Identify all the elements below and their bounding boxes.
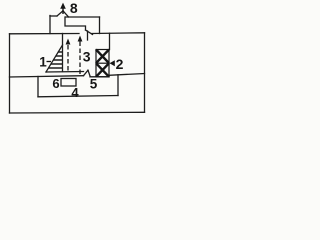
cabinet outer wall left <box>9 34 11 113</box>
svg-text:6: 6 <box>52 76 59 91</box>
louver hypotenuse <box>46 45 63 72</box>
chimney top edge <box>66 16 100 18</box>
outlet flap (open damper) <box>57 11 63 16</box>
svg-text:3: 3 <box>83 48 91 64</box>
floor right segment <box>109 74 145 76</box>
louver support column <box>62 34 64 72</box>
duct pipe to heater stack <box>109 33 111 49</box>
floor flap 5 <box>84 70 89 76</box>
ceiling opening flap pivot <box>87 31 89 40</box>
chimney inner baffle <box>65 17 86 30</box>
svg-text:8: 8 <box>70 0 78 16</box>
cabinet outer wall bottom <box>10 111 145 114</box>
bottom duct floor <box>38 96 118 97</box>
pointer dash for label 1 <box>47 61 52 63</box>
svg-text:4: 4 <box>71 85 79 100</box>
flow arrow 3 left (dashed shaft) <box>67 44 69 71</box>
louver hatch bars (element 1) <box>48 52 62 68</box>
damper box 6 <box>61 79 76 87</box>
chimney top edge left stub <box>50 15 57 17</box>
flow arrow 3 left (head) <box>66 39 71 45</box>
flow arrow 8 (shaft) <box>62 6 64 14</box>
flow arrow 3 right (head) <box>78 36 83 42</box>
outlet flap tail <box>63 11 69 17</box>
cabinet outer wall right <box>144 33 146 113</box>
bottom duct right wall <box>117 75 119 96</box>
cabinet ceiling right segment <box>92 32 145 35</box>
heater stack (element 2) <box>96 50 109 77</box>
flow arrow 3 right (dashed shaft) <box>79 41 81 74</box>
svg-text:5: 5 <box>90 76 98 91</box>
ceiling opening flap <box>86 30 93 35</box>
svg-text:2: 2 <box>116 56 124 72</box>
floor left segment <box>10 76 84 77</box>
pointer arrow for label 2 <box>110 60 115 66</box>
chimney left wall <box>49 16 51 34</box>
floor under stack <box>90 76 109 78</box>
cabinet ceiling left segment <box>10 33 80 35</box>
floor flap 5 tail <box>88 70 90 76</box>
chimney right wall <box>99 17 101 34</box>
svg-text:1: 1 <box>39 55 47 70</box>
bottom duct left wall <box>37 77 39 97</box>
flow arrow 8 (head) <box>60 3 66 9</box>
shelf top line <box>46 71 84 74</box>
